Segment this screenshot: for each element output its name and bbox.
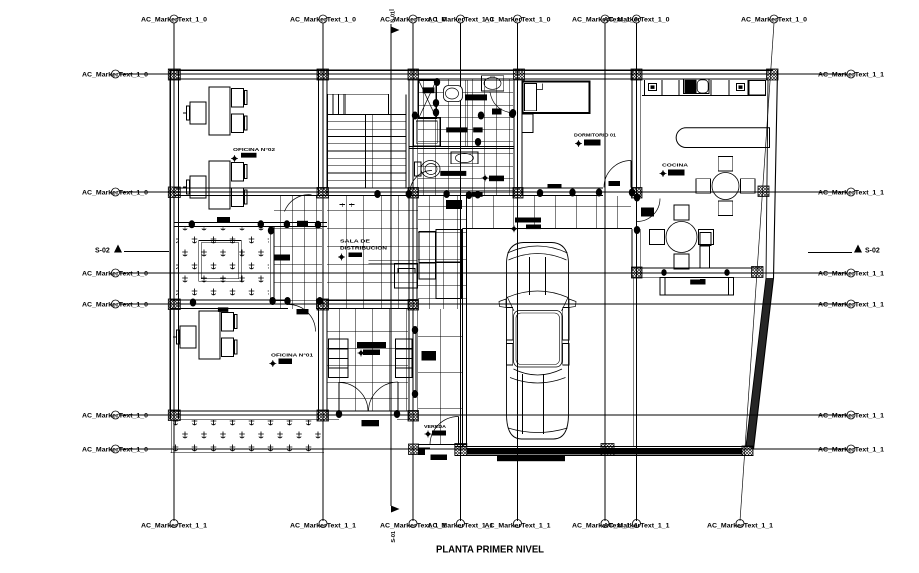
column B1: [317, 69, 329, 80]
kitchen counter: [642, 95, 766, 97]
svg-text:S-02: S-02: [865, 248, 880, 255]
corridor shelf boxes: [419, 232, 436, 263]
svg-text:AC_MarkerText_1_0: AC_MarkerText_1_0: [82, 412, 149, 419]
floor tiles deposito: [327, 309, 408, 411]
bath shaft X: [419, 80, 437, 119]
dining dark piece: [641, 208, 654, 217]
deposito level cross: [358, 350, 365, 357]
wall vertical x323 lower: [318, 300, 320, 420]
svg-text:S-01: S-01: [391, 531, 397, 543]
axis marker top 4: [457, 15, 465, 23]
column E2: [513, 188, 523, 199]
bath blob 1: [465, 94, 487, 100]
garage front wall: [455, 445, 754, 447]
wall entry porch y446: [418, 444, 467, 446]
column A4: [168, 299, 180, 310]
svg-text:SALA DE: SALA DE: [340, 239, 371, 245]
bath bottom dots: [466, 191, 472, 199]
grid line 4 (horizontal axis y=304): [120, 303, 847, 305]
wall bathroom divider vertical: [464, 80, 466, 146]
axis marker bottom 3: [409, 520, 417, 528]
svg-text:AC_MarkerText_1_0: AC_MarkerText_1_0: [82, 446, 149, 453]
office02 NPT label: [241, 153, 257, 158]
wall exterior left inner: [178, 70, 180, 420]
hall y192 wall dots: [374, 190, 380, 198]
svg-text:AC_MarkerText_1_1: AC_MarkerText_1_1: [818, 189, 885, 196]
office01 desk set: [199, 311, 220, 359]
svg-text:AC_MarkerText_1_1: AC_MarkerText_1_1: [818, 71, 885, 78]
svg-text:AC_MarkerText_1_0: AC_MarkerText_1_0: [82, 270, 149, 277]
svg-text:AC_MarkerText_1_0: AC_MarkerText_1_0: [82, 71, 149, 78]
section line S-01: [390, 24, 392, 506]
hall level cross: [338, 254, 345, 261]
column G2: [632, 188, 643, 199]
patio rail dot 3: [284, 220, 290, 228]
entry NPT blob: [432, 431, 446, 436]
terrace blob: [700, 279, 706, 285]
axis marker right 4: [847, 300, 855, 308]
column A2: [168, 187, 180, 198]
hall tick marks: [340, 204, 345, 206]
column H6: [742, 446, 753, 456]
wall kitchen left x636: [631, 70, 633, 197]
column D6: [455, 444, 467, 456]
floor tiles patio corridor: [274, 196, 322, 309]
column B5: [317, 410, 329, 421]
column H1: [767, 69, 779, 80]
dining table 2: [666, 222, 697, 253]
bath blob 2: [492, 109, 502, 115]
wall exterior right slant inner: [746, 80, 768, 446]
column G1: [631, 69, 642, 80]
dining cabinet: [700, 233, 711, 246]
floor tiles garage walkway: [467, 196, 632, 229]
entry door arc: [430, 417, 459, 446]
entry threshold blob: [431, 455, 448, 461]
bedroom bottom blob: [548, 184, 562, 188]
column C6: [409, 444, 419, 455]
entry level cross: [425, 431, 432, 438]
axis marker top 1: [170, 15, 178, 23]
patio right edge wall: [269, 226, 271, 300]
bed: [523, 82, 590, 113]
grid line 1 (horizontal axis y=74): [120, 73, 847, 75]
floor tiles bathrooms: [418, 79, 513, 196]
wall office bottom y415: [170, 410, 418, 412]
axis marker top 5: [514, 15, 522, 23]
patio rail blob right: [297, 221, 308, 227]
dining wall dots: [661, 269, 666, 276]
garden strip hatch bottom: [172, 420, 323, 452]
deposito label blob: [357, 342, 386, 348]
axis marker bottom 4: [457, 520, 465, 528]
wall exterior right slant outer: [754, 70, 778, 449]
axis marker right 1: [847, 70, 855, 78]
column H2: [758, 186, 769, 197]
grid line C (vertical axis x=413): [412, 23, 414, 521]
svg-text:PLANTA PRIMER NIVEL: PLANTA PRIMER NIVEL: [436, 545, 544, 556]
wall exterior top outer: [169, 69, 773, 71]
svg-text:AC_MarkerText_1_0: AC_MarkerText_1_0: [485, 16, 552, 23]
grid line G (vertical axis x=636.5): [636, 23, 638, 521]
entry dark rect: [418, 449, 425, 455]
bed nightstand: [522, 114, 533, 133]
svg-text:AC_MarkerText_1_1: AC_MarkerText_1_1: [818, 412, 885, 419]
grid line E (vertical axis x=517.5): [517, 23, 519, 521]
axis marker bottom 1: [170, 520, 178, 528]
bath NPT blob: [489, 176, 504, 182]
deposito door dots: [336, 410, 342, 418]
svg-text:OFICINA N°01: OFICINA N°01: [271, 353, 314, 358]
patio label blob: [217, 217, 230, 223]
kitchen door dots: [634, 194, 640, 202]
deposito double door: [339, 383, 368, 412]
column B4: [317, 299, 329, 310]
axis marker top 6: [601, 15, 609, 23]
corridor label blob: [422, 351, 437, 361]
svg-text:AC_MarkerText_1_1: AC_MarkerText_1_1: [707, 523, 774, 530]
svg-text:COCINA: COCINA: [662, 163, 689, 168]
grid line 3 (horizontal axis y=273): [120, 272, 847, 274]
kitchen island: [676, 128, 769, 148]
svg-text:AC_MarkerText_1_1: AC_MarkerText_1_1: [604, 523, 671, 530]
grid line H (slanted axis): [740, 23, 774, 521]
svg-text:AC_MarkerText_1_1: AC_MarkerText_1_1: [818, 270, 885, 277]
axis marker top 8: [770, 15, 778, 23]
column C2: [408, 188, 419, 199]
grid line B (vertical axis x=323): [322, 23, 324, 521]
office01 desk blob: [218, 307, 228, 312]
bath label blob 2: [440, 171, 466, 176]
bedroom wall dot: [510, 109, 516, 117]
axis marker top 7: [633, 15, 641, 23]
axis marker bottom 8: [736, 520, 744, 528]
grid line 5 (horizontal axis y=415): [120, 414, 847, 416]
floor tiles corridor upper: [418, 196, 466, 309]
deposito shelves left: [329, 339, 349, 349]
bath dot mid: [475, 138, 481, 146]
axis marker left 3: [112, 269, 120, 277]
section flag S-01 bottom: [391, 506, 400, 513]
wall horizontal y192 lower: [174, 195, 603, 197]
svg-text:AC_MarkerText_1_1: AC_MarkerText_1_1: [141, 523, 208, 530]
floor tiles hall de distribucion: [327, 196, 418, 309]
garage gate label blob: [497, 456, 565, 461]
patio rail dot 2: [258, 220, 264, 228]
grid line 2 (horizontal axis y=192): [120, 191, 847, 193]
svg-text:DISTRIBUCION: DISTRIBUCION: [340, 246, 388, 252]
wall exterior right slant lower band: [746, 278, 774, 449]
axis marker top 3: [409, 15, 417, 23]
patio NPT blob: [274, 255, 290, 261]
svg-text:AC_MarkerText_1_1: AC_MarkerText_1_1: [818, 446, 885, 453]
svg-text:AC_MarkerText_1_0: AC_MarkerText_1_0: [141, 16, 208, 23]
bath sink 1: [482, 76, 504, 91]
column B2: [317, 188, 329, 199]
section flag S-01 top: [391, 27, 400, 34]
axis marker bottom 2: [319, 520, 327, 528]
deposito shelves right: [396, 339, 413, 349]
grid line A (vertical axis x=174): [173, 23, 175, 521]
kitchen level cross: [660, 170, 667, 177]
wall hall bottom y304: [170, 299, 288, 301]
column A5: [168, 410, 180, 421]
office02 desk set 1: [209, 87, 230, 135]
patio edge dot: [268, 227, 274, 235]
axis marker bottom 7: [633, 520, 641, 528]
bath door arc 2: [410, 171, 432, 193]
svg-text:AC_MarkerText_1_1: AC_MarkerText_1_1: [485, 523, 552, 530]
terrace bench: [660, 278, 734, 295]
grid line F (vertical axis x=605): [604, 23, 606, 521]
svg-text:OFICINA N°02: OFICINA N°02: [233, 147, 276, 152]
bedroom door blob: [609, 181, 621, 186]
column F6: [601, 444, 614, 456]
office02 level cross: [231, 155, 238, 162]
axis marker top 2: [319, 15, 327, 23]
svg-text:AC_MarkerText_1_1: AC_MarkerText_1_1: [818, 301, 885, 308]
wall vertical x323 upper: [318, 70, 320, 196]
column C5: [408, 411, 419, 422]
hall door arc: [285, 195, 312, 212]
office01 level cross: [269, 360, 276, 367]
column C4: [408, 300, 419, 311]
hall SE closet: [369, 260, 418, 262]
hall wall dots: [269, 297, 275, 305]
wall garage right x636: [631, 229, 633, 278]
axis marker bottom 6: [601, 520, 609, 528]
column E1: [514, 69, 525, 80]
bath level cross: [482, 175, 489, 182]
bath sink 2: [451, 152, 478, 164]
wall horizontal y192 upper: [174, 187, 603, 189]
bath bottom blob: [472, 192, 483, 197]
office02 desk set 2: [209, 161, 230, 209]
bath label blob 1: [446, 127, 467, 132]
bath dots upper: [434, 78, 440, 86]
svg-text:AC_MarkerText_1_1: AC_MarkerText_1_1: [290, 523, 357, 530]
wall exterior left outer: [169, 70, 171, 420]
patio rail wall: [174, 221, 327, 223]
bedroom NPT blob: [584, 140, 601, 146]
axis marker right 2: [847, 188, 855, 196]
garage top line: [463, 228, 632, 230]
bath toilet 2: [415, 162, 422, 176]
wall bathroom divider horizontal: [409, 145, 514, 147]
floor tiles corridor lower: [418, 309, 462, 444]
wall vertical x413: [408, 79, 410, 420]
bath shower: [413, 118, 440, 146]
patio rail dot 4: [315, 221, 321, 229]
axis marker left 4: [112, 300, 120, 308]
svg-text:AC_MarkerText_1_0: AC_MarkerText_1_0: [82, 301, 149, 308]
column G3: [632, 267, 643, 278]
car: [507, 243, 569, 440]
bedroom door arc: [604, 161, 631, 188]
bedroom level cross: [575, 140, 582, 147]
stairs: [345, 94, 388, 114]
wall bedroom left x517: [513, 80, 515, 196]
svg-text:S-02: S-02: [95, 248, 110, 255]
patio rail dot 1: [189, 220, 195, 228]
axis marker left 1: [112, 70, 120, 78]
axis marker right 3: [847, 269, 855, 277]
wall garage left x464: [462, 229, 464, 447]
svg-text:AC_MarkerText_1_0: AC_MarkerText_1_0: [290, 16, 357, 23]
garage walk label blob: [515, 218, 541, 223]
hall NPT blob: [349, 253, 363, 258]
kitchen door arc: [637, 199, 660, 222]
bedroom bottom dots: [537, 189, 543, 197]
office01 door blob: [297, 309, 309, 314]
axis marker left 6: [112, 445, 120, 453]
svg-text:AC_MarkerText_1_0: AC_MarkerText_1_0: [741, 16, 808, 23]
svg-text:AC_MarkerText_1_0: AC_MarkerText_1_0: [604, 16, 671, 23]
section marker S-02 right: [808, 252, 852, 254]
svg-text:DORMITORIO 01: DORMITORIO 01: [574, 133, 616, 138]
axis marker left 2: [112, 188, 120, 196]
axis marker left 5: [112, 411, 120, 419]
axis marker right 6: [847, 445, 855, 453]
axis marker bottom 5: [514, 520, 522, 528]
office01 NPT blob: [279, 359, 293, 365]
axis marker right 5: [847, 411, 855, 419]
deposito threshold blob: [362, 420, 380, 426]
bath shaft blob: [423, 87, 435, 93]
column H3: [752, 267, 764, 278]
svg-text:AC_MarkerText_1_0: AC_MarkerText_1_0: [82, 189, 149, 196]
grid line D (vertical axis x=460.5): [460, 23, 462, 521]
bath toilet 1: [444, 86, 463, 102]
wall exterior top inner: [169, 78, 768, 80]
column C1: [408, 69, 419, 80]
bath door arc 1: [490, 92, 512, 113]
corridor wall dots: [412, 326, 418, 334]
wall dining bottom y273: [631, 267, 762, 269]
patio garden hatch: [176, 228, 269, 300]
dining table 1: [712, 173, 739, 200]
column A1: [168, 69, 180, 80]
patio inner planter square: [199, 240, 241, 281]
office01 door arc: [289, 305, 316, 332]
kitchen NPT blob: [668, 170, 685, 176]
corridor door leaf: [412, 330, 414, 394]
grid line 6 (horizontal axis y=449): [120, 448, 847, 450]
corridor door blob: [446, 200, 462, 209]
svg-text:VEREDA: VEREDA: [424, 424, 447, 429]
